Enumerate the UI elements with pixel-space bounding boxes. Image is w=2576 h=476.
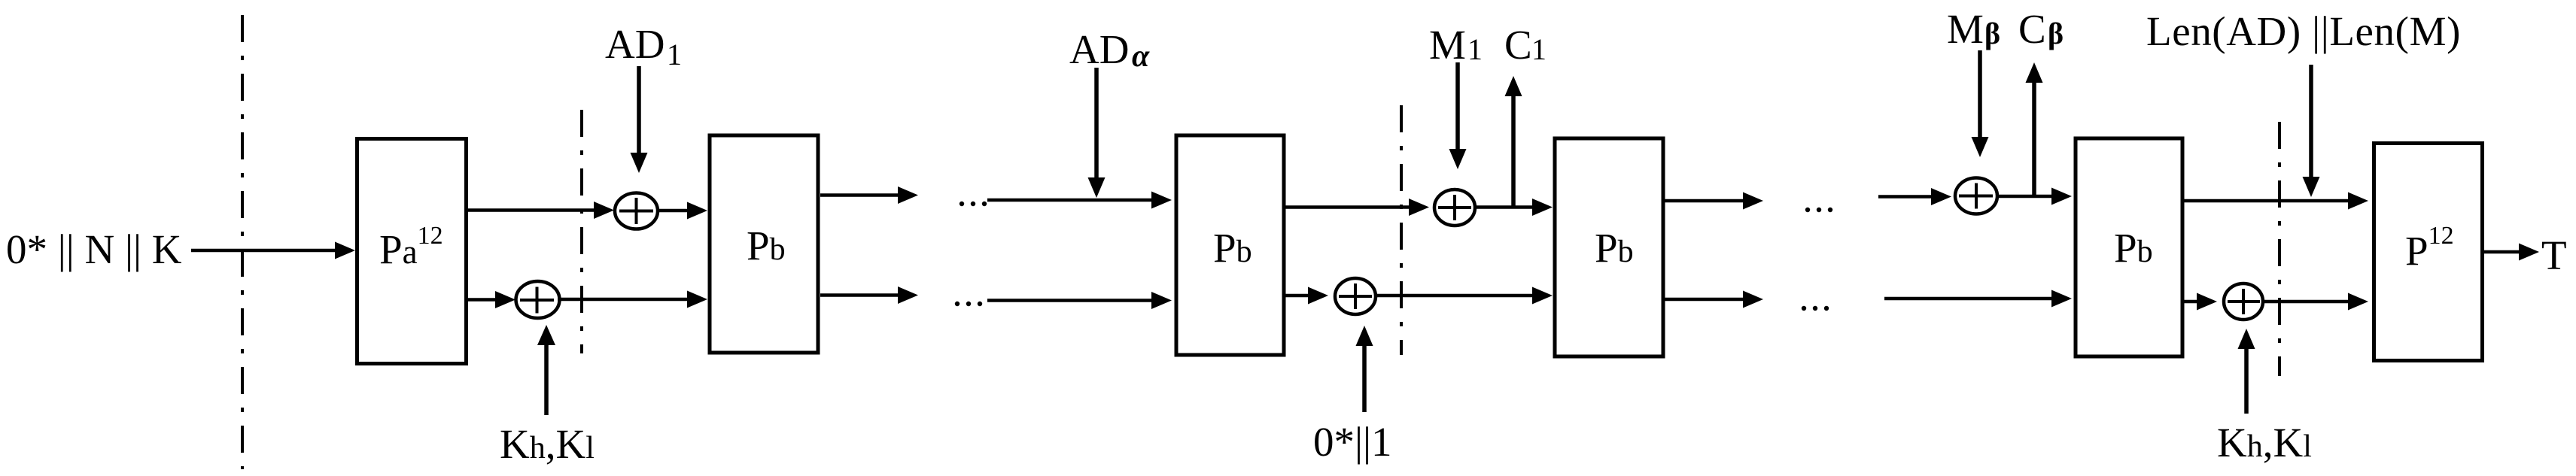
label C_1 [1504,22,1547,68]
phase separator dash-dot line 2 [580,110,583,353]
svg-text:Pb: Pb [1213,225,1252,271]
svg-text:1: 1 [1531,32,1547,66]
svg-text:M: M [1429,22,1466,68]
node input label 0*||N||K [6,226,182,272]
svg-text:0* || N || K: 0* || N || K [6,226,182,272]
xor X5 (message absorb Mbeta) [1955,178,1997,214]
svg-text:Pb: Pb [1595,225,1634,271]
wire XOR3 to Pb3 [1475,205,1533,209]
label AD_1 [605,21,682,71]
svg-text:β: β [1984,17,2000,50]
wire Pa bottom output to XOR2 [468,298,496,302]
svg-text:α: α [1132,39,1150,74]
svg-text:Kh,Kl: Kh,Kl [500,421,595,467]
wire Pb4 bottom output to XOR6 [2184,300,2197,304]
ellipsis top 2 [1805,208,1832,212]
wire Pb3 bottom output [1665,298,1744,302]
wire Pa top output to XOR1 [468,208,595,212]
permutation box Pb 1 [710,135,818,353]
wire AD_1 arrow down [637,66,641,153]
xor X3 (message absorb M1) [1434,189,1475,226]
svg-text:AD: AD [1069,26,1129,72]
xor X2 (key absorb) [516,281,560,318]
svg-text:Len(AD) ||Len(M): Len(AD) ||Len(M) [2146,8,2461,54]
svg-text:Kh,Kl: Kh,Kl [2217,420,2312,465]
label Len(AD)||Len(M) [2146,8,2461,54]
svg-text:C: C [2018,6,2046,52]
permutation box Pb 3 [1555,138,1663,356]
svg-text:0*||1: 0*||1 [1313,419,1392,465]
svg-text:Pa12: Pa12 [379,222,443,272]
svg-text:1: 1 [667,38,682,71]
wire K_h,K_l arrow up into XOR6 [2244,348,2249,414]
wire into Pb2 top [987,199,1152,202]
wire Len arrow down [2309,65,2313,177]
wire Pb1 top output [820,193,899,197]
wire Pb1 bottom output [820,293,899,297]
wire into XOR5 [1878,195,1932,199]
wire Pb4 top output to P12 [2184,199,2349,203]
label M_1 [1429,22,1483,68]
svg-text:C: C [1504,22,1532,68]
wire XOR6 to P12 [2263,300,2349,304]
label C_beta [2018,6,2064,52]
wire into Pb4 bottom [1884,297,2052,301]
wire Pb3 top output [1665,199,1744,203]
wire Pb2 bottom output to XOR4 [1285,294,1309,298]
wire K_h,K_l arrow up into XOR2 [544,345,549,415]
ellipsis bottom 2 [1802,306,1829,311]
permutation box P12 [2374,144,2483,361]
wire XOR4 to Pb3 [1376,294,1533,298]
wire tag output T [2484,250,2520,254]
xor X4 (0*||1 absorb) [1335,278,1376,314]
wire AD_alpha arrow down [1094,68,1099,178]
label K_h,K_l left [500,421,595,467]
wire 0*||1 arrow up into XOR4 [1362,345,1367,412]
wire C_beta arrow up [2032,82,2036,195]
xor X6 (key absorb final) [2224,283,2263,320]
label K_h,K_l right [2217,420,2312,465]
wire M_1 arrow down [1455,62,1460,150]
svg-text:P12: P12 [2405,222,2454,274]
ellipsis bottom 1 [955,302,982,306]
label AD_alpha [1069,26,1150,74]
label 0*||1 [1313,419,1392,465]
svg-text:Pb: Pb [2114,225,2153,271]
label T [2541,232,2567,278]
xor X1 (AD absorb) [615,193,658,229]
wire into Pb2 bottom [987,299,1152,302]
wire XOR5 to Pb4 [1997,195,2052,199]
initialization separator dash-dot line 1 [241,15,244,469]
permutation box Pb 2 [1176,135,1284,355]
wire XOR2 to Pb1 [558,298,688,302]
ellipsis top 1 [960,202,987,206]
permutation box Pb 4 [2076,138,2182,356]
wire C_1 arrow up [1511,96,1516,207]
wire XOR1 to Pb1 [658,209,688,213]
tag-phase separator dash-dot line 4 [2278,122,2281,376]
svg-text:T: T [2541,232,2567,278]
label M_beta [1947,6,2000,52]
svg-text:M: M [1947,6,1984,52]
permutation box Pa12 [357,139,467,364]
svg-text:1: 1 [1467,32,1483,66]
wire M_beta arrow down [1978,50,1982,138]
svg-text:AD: AD [605,21,665,67]
svg-text:Pb: Pb [747,223,786,268]
phase separator dash-dot line 3 [1400,105,1403,355]
wire input arrow to Pa [191,249,336,253]
svg-text:β: β [2048,17,2064,50]
wire Pb2 top output to XOR3 [1285,205,1410,209]
